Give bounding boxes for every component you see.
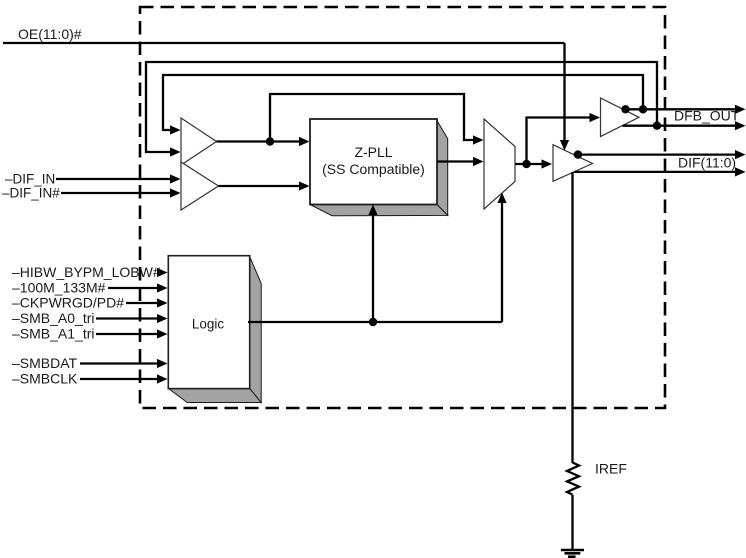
wire control to mux: [501, 202, 503, 322]
ground: [561, 550, 584, 557]
svg-text:DIF(11:0): DIF(11:0): [678, 155, 736, 171]
arrow SMB_A0 into Logic: [157, 314, 168, 323]
arrow Z-PLL out into mux: [473, 157, 484, 166]
wire logic input SMBDAT: [80, 362, 159, 364]
wire resistor to ground: [571, 495, 573, 549]
arrow SMBCLK into Logic: [157, 374, 168, 383]
arrow SMBDAT into Logic: [157, 359, 168, 368]
arrow 100M into Logic: [157, 283, 168, 292]
wire U1a output to Z-PLL: [217, 140, 301, 142]
resistor R1 IREF: [567, 463, 579, 495]
node dot DFB feedback A tap: [653, 122, 661, 130]
svg-text:OE(11:0)#: OE(11:0)#: [18, 26, 82, 42]
wire U1b output to Z-PLL: [219, 185, 301, 187]
wire DFB lower output: [623, 125, 738, 127]
wire logic input HIBW: [157, 271, 159, 273]
svg-text:–CKPWRGD/PD#: –CKPWRGD/PD#: [12, 295, 124, 311]
arrow feedback B into U1a: [170, 125, 181, 134]
node dot DFB edge: [621, 105, 629, 113]
wire logic input 100M: [108, 287, 159, 289]
output buffer U5 DIF: [553, 145, 593, 182]
node dot DIF output: [574, 150, 582, 158]
wire Z-PLL output to mux: [437, 160, 474, 162]
wire logic input SMBCLK: [80, 378, 159, 380]
IC boundary dashed box: [140, 7, 665, 408]
arrow into Z-PLL input 2: [299, 181, 310, 190]
Logic box U3: [168, 256, 249, 389]
wire logic input SMB_A0: [96, 317, 159, 319]
arrow SMB_A1 into Logic: [157, 329, 168, 338]
arrow bypass into mux: [473, 135, 484, 144]
arrow OE into U5: [560, 140, 569, 151]
svg-text:–DIF_IN#: –DIF_IN#: [2, 186, 60, 201]
wire mux output: [515, 163, 543, 165]
wire feedback B from DFB upper output: [163, 75, 643, 130]
Logic shadow right face: [250, 257, 262, 403]
svg-text:–100M_133M#: –100M_133M#: [12, 280, 106, 296]
output buffer U4 DFB: [601, 98, 640, 137]
arrow DFB_OUT upper: [735, 105, 746, 114]
wire logic output: [248, 321, 502, 323]
arrow HIBW into Logic: [157, 268, 168, 277]
svg-text:–SMBDAT: –SMBDAT: [12, 355, 78, 371]
wire feedback A from DFB lower output: [146, 62, 657, 152]
node dot on mux output: [522, 160, 530, 168]
wire DFB upper output: [623, 108, 737, 110]
svg-text:Logic: Logic: [192, 317, 225, 332]
wire IREF vertical: [571, 172, 573, 463]
arrow into U4: [590, 113, 601, 122]
wire DIF_IN: [56, 178, 171, 180]
svg-text:DFB_OUT: DFB_OUT: [674, 108, 740, 124]
input buffer U1b (bottom): [181, 162, 219, 210]
arrow CKPWRGD into Logic: [157, 298, 168, 307]
arrow control into mux bottom: [497, 193, 506, 204]
node dot on U1a output: [266, 137, 274, 145]
Z-PLL box U2: [310, 119, 437, 205]
input buffer U1a (top): [181, 118, 217, 165]
Z-PLL shadow right face: [437, 121, 448, 216]
wire logic input SMB_A1: [96, 333, 159, 335]
wire DIF upper output: [574, 153, 738, 155]
mux M1: [484, 119, 515, 209]
arrow DIF_IN# into U1b: [170, 188, 181, 197]
wire DIF_IN#: [61, 192, 171, 194]
wire branch up to DFB buffer: [527, 118, 591, 165]
arrow feedback A into U1a: [170, 147, 181, 156]
svg-text:–SMB_A1_tri: –SMB_A1_tri: [12, 326, 94, 342]
Z-PLL shadow bottom face: [310, 205, 448, 216]
svg-text:–HIBW_BYPM_LOBW#: –HIBW_BYPM_LOBW#: [12, 264, 161, 280]
wire logic input CKPWRGD: [126, 302, 159, 304]
svg-text:–DIF_IN: –DIF_IN: [5, 172, 55, 187]
arrow DFB_OUT lower: [735, 121, 746, 130]
svg-text:(SS Compatible): (SS Compatible): [322, 161, 425, 177]
arrow mux out into U5: [542, 159, 553, 168]
wire OE horizontal: [3, 42, 565, 44]
wire DIF lower output: [574, 171, 737, 173]
arrow DIF lower: [735, 167, 746, 176]
arrow DIF_IN into U1b: [170, 174, 181, 183]
Logic shadow bottom face: [169, 389, 262, 403]
wire bypass C from node to mux: [270, 94, 474, 142]
svg-text:–SMBCLK: –SMBCLK: [12, 371, 78, 387]
wire OE vertical drop to DIF buffer: [563, 43, 565, 142]
node dot DFB feedback B tap: [639, 105, 647, 113]
node dot on logic output: [369, 318, 377, 326]
svg-text:IREF: IREF: [595, 461, 627, 477]
svg-text:–SMB_A0_tri: –SMB_A0_tri: [12, 310, 94, 326]
arrow control into Z-PLL bottom: [368, 205, 377, 216]
svg-text:Z-PLL: Z-PLL: [354, 144, 392, 160]
arrow DIF upper: [735, 150, 746, 159]
wire control to Z-PLL: [372, 214, 374, 322]
arrow into Z-PLL ref input: [299, 137, 310, 146]
